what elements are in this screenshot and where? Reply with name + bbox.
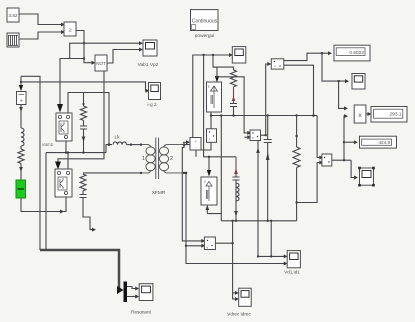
- transformer primary winding: [141, 145, 152, 147]
- svg-text:s: s: [204, 180, 206, 184]
- scope ig2: [149, 83, 161, 100]
- wire secondary measurement vertical 2 to Vm3: [186, 173, 202, 246]
- capacitor Cs1 snubber: [80, 126, 87, 129]
- display 293.1: [371, 107, 407, 123]
- wire L to R: [20, 146, 22, 149]
- voltage measurement Vm2 load: [322, 154, 332, 166]
- wire Vm1 bottom output down to scope Vd1 input 1: [258, 141, 284, 257]
- wire Lk to transformer primary dot: [127, 144, 142, 146]
- measurement block B: [190, 138, 201, 151]
- resistor Rload zigzag: [293, 147, 300, 168]
- scope Xd1 selected: [358, 167, 375, 187]
- svg-text:Vd1,Id1: Vd1,Id1: [284, 270, 300, 275]
- wire R to breaker: [20, 163, 22, 180]
- wire constant C1 to relational operator input 1: [19, 14, 62, 25]
- svg-text:+: +: [20, 99, 23, 105]
- svg-text:1: 1: [142, 156, 145, 162]
- diode D1 block: [207, 82, 222, 112]
- wire Vm1 output up to mean block S1: [260, 64, 268, 135]
- wire mid rail: [46, 152, 106, 154]
- red current arrow d2: [235, 157, 237, 177]
- wire branch to scope Xd1: [351, 160, 354, 177]
- wire Vm1 feed from D1 anode: [217, 77, 248, 133]
- wire current measure A bottom to D2 rail: [196, 142, 211, 157]
- wire current measurement to series inductor L: [20, 105, 22, 129]
- load resistor feed: [296, 116, 298, 148]
- wire D1 cathode to current measure block: [210, 111, 212, 129]
- svg-text:Lk: Lk: [114, 135, 120, 141]
- wire mid rail to Lk: [106, 145, 112, 153]
- svg-text:XFMR: XFMR: [152, 190, 166, 196]
- wire PWM branch to scope Vab1 input 1: [84, 42, 140, 44]
- wire to diode D1 anode top: [213, 55, 217, 77]
- scope Vdrec Idrec: [239, 288, 252, 306]
- voltage measurement Vm1: [250, 130, 261, 141]
- wire branch to product X input 1: [339, 81, 345, 108]
- arrow up into D2 bottom: [206, 210, 208, 214]
- svg-text:s: s: [208, 85, 210, 89]
- svg-text:Vab1 Vp2: Vab1 Vp2: [138, 62, 159, 68]
- svg-text:v: v: [252, 136, 254, 140]
- wire IGBT1 collector top rail to mid node: [68, 93, 109, 145]
- wire snubber1 tap: [83, 93, 85, 107]
- svg-text:+: +: [274, 65, 276, 69]
- wire branch to scope V load: [322, 53, 346, 81]
- wire breaker bottom to return rail: [21, 197, 66, 212]
- scope rectifier input: [232, 47, 246, 63]
- resistor Rs1 snubber zigzag: [81, 106, 87, 120]
- resistor Rs2 snubber zigzag: [80, 174, 86, 191]
- sawtooth repeating sequence source: [7, 33, 19, 47]
- inductor Ld2 snubber coil: [236, 183, 239, 201]
- wire Cs2 staircase to lower node: [83, 198, 95, 230]
- capacitor Cd1 snubber: [230, 104, 237, 107]
- demux input arrow: [117, 286, 124, 294]
- positive DC rail after rectifier: [211, 115, 317, 117]
- wire transformer secondary top to rectifier scope line: [184, 55, 230, 145]
- IGBT2 block: [55, 169, 72, 197]
- wire IGBT2 collector from mid rail: [67, 153, 69, 169]
- wire sawtooth source to relational operator input 2: [19, 32, 62, 39]
- diode D2 block: [201, 177, 217, 205]
- wire current measurement signal to measurement bus: [21, 76, 40, 250]
- wire PWM branch to IGBT1 gate: [60, 59, 84, 106]
- wire node rail vertical: [220, 116, 222, 214]
- constant block C1 value 3.82: [7, 8, 19, 22]
- node transformer terminals: [140, 143, 142, 145]
- wire D2 feed vertical: [204, 55, 236, 157]
- transformer XFMR core: [140, 138, 185, 180]
- wire mean S1 output to display 0.5022: [284, 53, 329, 60]
- svg-text:293.1: 293.1: [389, 112, 401, 118]
- logical NOT block: [95, 55, 107, 71]
- svg-text:IGBT/D: IGBT/D: [42, 143, 54, 147]
- inductor Lk leakage coil: [113, 142, 127, 145]
- wire Rload bottom: [296, 168, 298, 221]
- node PWM junction: [83, 42, 85, 44]
- gate arrow IGBT2: [55, 162, 61, 170]
- svg-text:Continuous: Continuous: [192, 19, 218, 25]
- negative DC rail: [221, 220, 296, 222]
- wire Vm3 output to scope Vdrec: [216, 242, 233, 244]
- display 0.5022: [334, 45, 370, 61]
- current measurement block source side: [17, 92, 27, 105]
- inductor L source coil: [21, 128, 24, 146]
- svg-text:Resonant: Resonant: [131, 310, 151, 315]
- wire product X output to display 293.1: [366, 113, 368, 115]
- transformer secondary winding: [163, 145, 184, 147]
- wire D2 bottom rail: [207, 214, 221, 221]
- svg-text:NOT: NOT: [96, 61, 106, 66]
- breaker block green: [16, 180, 26, 198]
- wire primary bottom rail: [83, 172, 141, 174]
- gate arrow IGBT1: [57, 104, 63, 113]
- mean block S1: [271, 59, 284, 69]
- wire mid rail drop to bus: [45, 153, 47, 250]
- relational operator block: [64, 22, 76, 36]
- svg-text:424.8: 424.8: [379, 140, 391, 145]
- scope Vd1 Id1: [287, 251, 300, 268]
- capacitor Cd2 snubber: [233, 177, 240, 180]
- wire load voltage loop to Vm2: [297, 163, 320, 203]
- wire PWM jog segment: [70, 43, 84, 58]
- scope Resonant: [139, 284, 153, 301]
- product block X: [354, 105, 366, 123]
- display 424.8: [360, 136, 397, 148]
- svg-text:0.5022: 0.5022: [349, 50, 364, 56]
- wire Cs1 to mid rail: [83, 129, 85, 153]
- wire NOT output to IGBT2 gate: [58, 63, 104, 162]
- svg-text:powergui: powergui: [195, 33, 214, 39]
- capacitor Cs2 snubber: [80, 195, 87, 198]
- wire current signal to scope ig2: [21, 82, 147, 91]
- svg-text:≥: ≥: [68, 28, 71, 34]
- red current arrow d1: [233, 87, 235, 104]
- wire cm B input arrow: [183, 141, 187, 143]
- svg-text:i-g 2: i-g 2: [147, 102, 157, 108]
- arrow into current measurement: [19, 85, 23, 91]
- wire Rs1 to Cs1: [83, 120, 85, 126]
- wire relational output to NOT gate input: [76, 31, 92, 63]
- filter capacitor C main: [267, 116, 269, 140]
- svg-text:2: 2: [170, 156, 173, 162]
- scope V load: [352, 74, 365, 90]
- wire to diode D1 snubber chain: [213, 67, 234, 70]
- voltage measurement Vm3 secondary: [204, 237, 215, 250]
- wire branch to display 424.8: [344, 141, 354, 143]
- current measurement block A rectifier: [207, 129, 217, 143]
- wire S1 load sense: [284, 65, 314, 115]
- wire D2 anode arrow: [208, 157, 210, 171]
- svg-text:3.82: 3.82: [9, 13, 18, 18]
- powergui block: [191, 10, 219, 31]
- svg-text:Vdrec Idrec: Vdrec Idrec: [227, 312, 251, 317]
- resistor Rd1 snubber zigzag: [231, 70, 237, 87]
- wire secondary measurement vertical 1 to Vm3: [182, 145, 202, 241]
- wire secondary branch to scope Vd1 input 2: [186, 246, 284, 264]
- demux bar: [124, 282, 128, 303]
- wire demux outputs to scope Resonant: [127, 287, 136, 289]
- scope Vab1 Vp2: [143, 40, 157, 56]
- svg-text:v: v: [207, 246, 209, 250]
- wire NOT output to scope Vab1 input 2: [107, 50, 140, 64]
- wire IGBT1 emitter to mid rail: [65, 141, 67, 153]
- wire Vm2 output to product X input 2 and displays: [332, 159, 351, 161]
- IGBT1 block: [56, 113, 72, 141]
- wire measurement bus thick to demux: [40, 250, 121, 290]
- resistor R source zigzag: [18, 149, 24, 163]
- node NOT output junction: [103, 62, 105, 64]
- wire into current measurement block top: [20, 76, 22, 85]
- wire Cd1 to positive DC rail: [233, 107, 235, 116]
